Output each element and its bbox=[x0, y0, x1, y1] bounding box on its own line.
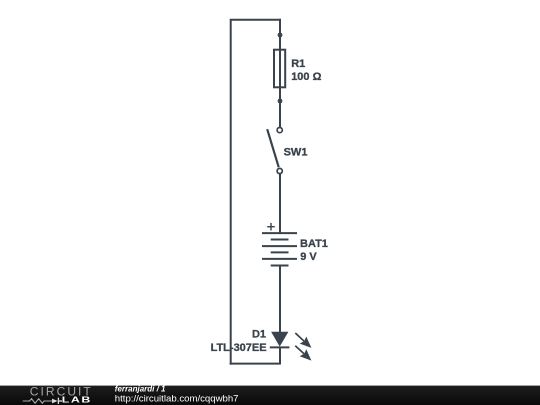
svg-text:http://circuitlab.com/cqqwbh7: http://circuitlab.com/cqqwbh7 bbox=[115, 393, 239, 404]
svg-text:D1: D1 bbox=[252, 328, 266, 340]
svg-text:LAB: LAB bbox=[62, 397, 92, 405]
svg-text:9 V: 9 V bbox=[300, 251, 317, 263]
svg-text:ferranjardi / 1: ferranjardi / 1 bbox=[115, 384, 166, 393]
svg-text:LTL-307EE: LTL-307EE bbox=[211, 342, 267, 354]
svg-text:100 Ω: 100 Ω bbox=[291, 71, 321, 83]
svg-text:R1: R1 bbox=[291, 58, 305, 70]
svg-text:BAT1: BAT1 bbox=[300, 238, 328, 250]
svg-text:SW1: SW1 bbox=[284, 146, 308, 158]
